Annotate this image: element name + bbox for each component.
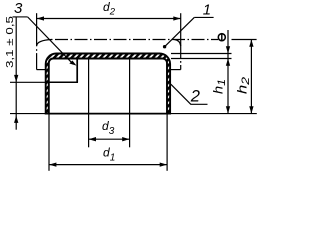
svg-text:3: 3 xyxy=(14,0,23,17)
svg-text:1: 1 xyxy=(203,1,211,18)
svg-text:3,1 ± 0,5: 3,1 ± 0,5 xyxy=(4,16,16,68)
svg-text:2: 2 xyxy=(190,87,200,105)
